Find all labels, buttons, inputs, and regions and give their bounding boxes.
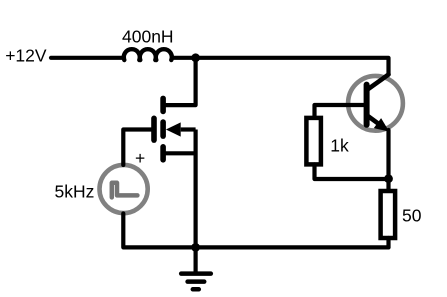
svg-text:1k: 1k [330,136,349,156]
svg-text:400nH: 400nH [122,27,174,47]
svg-text:5kHz: 5kHz [55,182,95,202]
svg-text:+12V: +12V [5,46,47,66]
svg-text:50: 50 [402,206,422,226]
svg-text:+: + [135,148,145,168]
